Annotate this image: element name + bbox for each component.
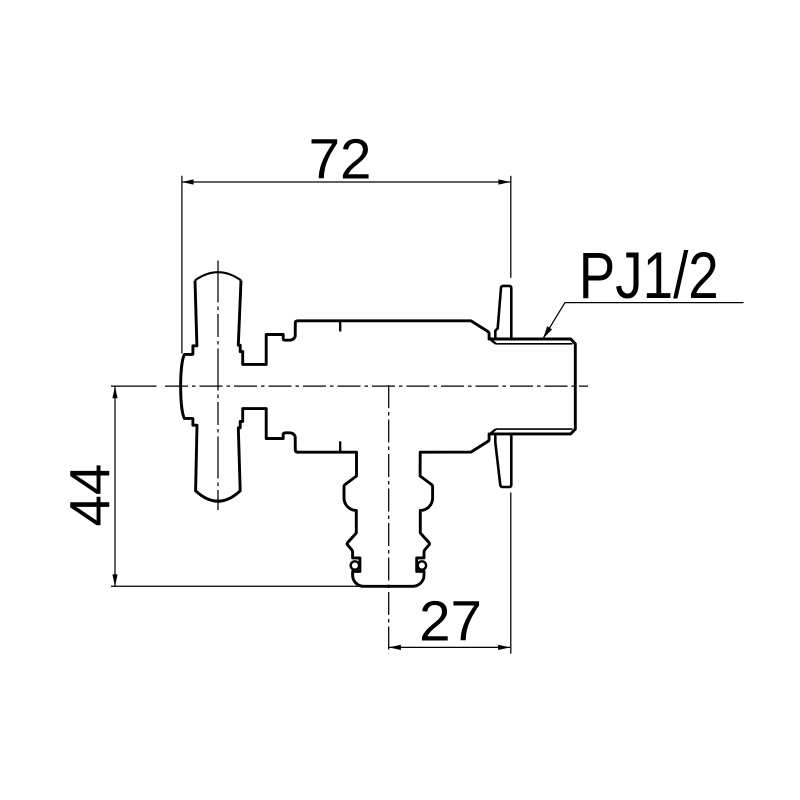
svg-text:72: 72 <box>309 128 372 191</box>
svg-text:44: 44 <box>59 464 122 527</box>
svg-text:27: 27 <box>419 590 482 653</box>
svg-text:PJ1/2: PJ1/2 <box>579 238 719 312</box>
